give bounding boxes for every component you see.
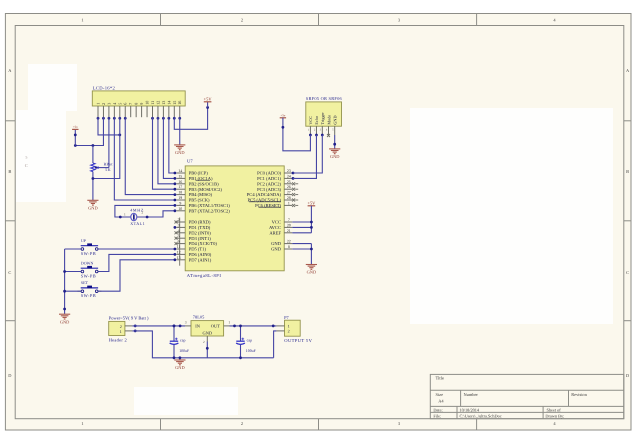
wire UP to PD5 xyxy=(98,248,174,250)
svg-text:27: 27 xyxy=(287,191,291,195)
wire SRF05 Trigger to PC0 xyxy=(293,135,322,173)
svg-text:PD7 (AIN1): PD7 (AIN1) xyxy=(189,257,212,262)
wire pot bottom to ground xyxy=(92,172,94,201)
wire LCD pin6 to PB4 xyxy=(125,117,175,194)
svg-text:Title: Title xyxy=(436,376,445,381)
svg-text:UP: UP xyxy=(81,238,87,243)
junction dot PD1 xyxy=(174,226,177,229)
svg-text:20: 20 xyxy=(287,223,291,227)
wire LCD pin14 to PB0 xyxy=(169,117,175,173)
capacitor C2 100uF xyxy=(240,326,242,341)
svg-text:9: 9 xyxy=(139,103,144,105)
svg-text:17: 17 xyxy=(178,185,182,189)
svg-text:VCC: VCC xyxy=(308,116,313,125)
svg-text:cap: cap xyxy=(180,339,185,343)
svg-text:AVCC: AVCC xyxy=(269,225,281,230)
junction dot pin5 gnd link xyxy=(118,134,121,137)
svg-text:Header 2: Header 2 xyxy=(109,338,127,343)
svg-text:OUT: OUT xyxy=(211,324,220,329)
wire SRF05 VCC to +5v xyxy=(283,118,311,151)
svg-text:RPot: RPot xyxy=(104,161,114,166)
mcu U7 ATmega8L-8PI body xyxy=(185,166,284,271)
regulator 78L05 body xyxy=(191,321,224,336)
svg-text:C:\Users\..\ultra.SchDoc: C:\Users\..\ultra.SchDoc xyxy=(460,413,502,418)
connector P7 pin stubs xyxy=(276,325,284,327)
svg-text:PD1 (TXD): PD1 (TXD) xyxy=(189,225,211,230)
svg-text:Sheet of: Sheet of xyxy=(547,407,562,412)
regulator 78L05 input pin xyxy=(185,325,191,327)
wire crystal pin1 to PB6 xyxy=(115,205,175,217)
svg-text:3: 3 xyxy=(106,103,111,105)
svg-text:5: 5 xyxy=(178,234,180,238)
svg-text:12: 12 xyxy=(155,101,160,105)
svg-text:OUTPUT 5V: OUTPUT 5V xyxy=(284,338,312,343)
svg-text:100uF: 100uF xyxy=(179,349,190,353)
wire DOWN to PD6 xyxy=(98,254,174,271)
svg-text:22: 22 xyxy=(287,240,291,244)
wire +5V to VCC AVCC AREF xyxy=(310,206,312,233)
svg-text:16: 16 xyxy=(177,101,182,105)
svg-text:XTAL1: XTAL1 xyxy=(130,221,145,226)
wire 78L05 gnd to bottom rail xyxy=(206,342,208,358)
module SRF05 pin stubs xyxy=(309,126,311,135)
svg-text:8: 8 xyxy=(288,245,290,249)
wire LCD pin16 to ground xyxy=(179,117,181,144)
ground symbol below U7 xyxy=(306,264,317,266)
svg-text:File:: File: xyxy=(433,413,441,418)
svg-text:C: C xyxy=(25,163,28,168)
svg-text:PB5 (SCK): PB5 (SCK) xyxy=(189,198,210,203)
svg-text:10: 10 xyxy=(145,101,150,105)
wire LCD pin13 to PB1 xyxy=(163,117,175,178)
svg-text:IN: IN xyxy=(195,324,200,329)
connector Header 2 body xyxy=(109,321,125,335)
wire LCD pin2 to +5v rail xyxy=(75,117,103,145)
regulator 78L05 gnd pin xyxy=(206,336,208,342)
svg-text:14: 14 xyxy=(178,169,182,173)
svg-text:SW-PB: SW-PB xyxy=(81,251,96,256)
svg-text:D: D xyxy=(8,373,11,378)
svg-text:PB0 (ICP): PB0 (ICP) xyxy=(189,171,209,176)
frame zone ticks xyxy=(160,14,162,26)
ground symbol below SRF05 xyxy=(329,148,340,150)
svg-text:26: 26 xyxy=(287,185,291,189)
svg-text:1: 1 xyxy=(124,212,126,216)
junction dot pot bottom gnd rail xyxy=(92,177,95,180)
svg-text:AREF: AREF xyxy=(269,230,281,235)
svg-text:4: 4 xyxy=(178,229,180,233)
junction dots SRF05 pins xyxy=(309,134,312,137)
wire DOWN left to gnd rail xyxy=(65,271,81,273)
svg-text:PD6 (AIN0): PD6 (AIN0) xyxy=(189,252,212,257)
svg-text:+5v: +5v xyxy=(280,113,285,117)
svg-text:GND: GND xyxy=(330,154,340,159)
svg-text:Power=5V( 9 V Batt ): Power=5V( 9 V Batt ) xyxy=(109,315,149,320)
svg-text:B: B xyxy=(8,169,11,174)
svg-text:PD2 (INT0): PD2 (INT0) xyxy=(189,230,212,235)
svg-text:Number: Number xyxy=(464,392,479,397)
svg-text:PB3 (MOSI/OC2): PB3 (MOSI/OC2) xyxy=(189,187,223,192)
svg-text:GND: GND xyxy=(307,270,317,275)
svg-text:SRF05 OR SRF06: SRF05 OR SRF06 xyxy=(306,96,343,101)
svg-text:GND: GND xyxy=(175,150,185,155)
svg-text:15: 15 xyxy=(172,101,177,105)
svg-text:2: 2 xyxy=(178,218,180,222)
svg-text:PB6 (XTAL1/TOSC1): PB6 (XTAL1/TOSC1) xyxy=(189,203,231,208)
svg-text:1: 1 xyxy=(228,320,230,324)
svg-text:2: 2 xyxy=(288,329,290,334)
svg-text:1: 1 xyxy=(96,103,101,105)
svg-text:13: 13 xyxy=(161,101,166,105)
svg-text:2: 2 xyxy=(101,103,106,105)
mcu U7 left pin stubs PD xyxy=(177,221,186,223)
svg-text:11: 11 xyxy=(177,245,181,249)
potentiometer wiper arrow xyxy=(96,167,109,169)
ground symbol below LCD pin16 xyxy=(174,144,185,146)
svg-text:6: 6 xyxy=(123,103,128,105)
wire bottom rail to P7 pin2 xyxy=(274,331,277,358)
svg-text:Echo: Echo xyxy=(314,116,319,125)
ground symbol below pot xyxy=(87,199,98,201)
connector Header 2 pin stubs xyxy=(125,325,132,327)
ground symbol below buttons xyxy=(59,313,70,315)
svg-text:16: 16 xyxy=(178,180,182,184)
svg-text:SW-PB: SW-PB xyxy=(81,273,96,278)
svg-text:3: 3 xyxy=(185,320,187,324)
svg-text:5: 5 xyxy=(117,103,122,105)
svg-text:PC0 (ADC0): PC0 (ADC0) xyxy=(257,171,281,176)
power +5v supply for SRF05 xyxy=(280,117,286,119)
mcu U7 left pin stubs PB xyxy=(177,172,186,174)
svg-text:7: 7 xyxy=(288,218,290,222)
power +5V port near LCD xyxy=(207,102,209,108)
wire UP left to gnd rail xyxy=(65,248,81,250)
svg-text:23: 23 xyxy=(287,169,291,173)
wire LCD pin1 to pin5 (gnd link) xyxy=(98,117,120,135)
svg-text:13: 13 xyxy=(177,256,181,260)
wire SRF05 Echo to PC1 xyxy=(293,135,316,178)
wire LCD pin15 to +5V xyxy=(174,108,207,130)
svg-text:D: D xyxy=(626,373,629,378)
svg-text:ATmega8L-8PI: ATmega8L-8PI xyxy=(187,273,222,278)
junction dots on connected left pins xyxy=(174,172,177,175)
svg-text:1: 1 xyxy=(288,201,290,205)
svg-text:PD5 (T1): PD5 (T1) xyxy=(189,247,207,252)
title block xyxy=(430,374,624,418)
svg-text:15: 15 xyxy=(178,174,182,178)
svg-text:+5V: +5V xyxy=(307,200,316,205)
wire LCD pin11 to PB3 xyxy=(153,117,175,189)
svg-text:PC4 (ADC4/SDA): PC4 (ADC4/SDA) xyxy=(247,192,282,197)
ground symbol power rail xyxy=(179,358,181,360)
junction dot at +5v stem xyxy=(74,144,77,147)
connector LCD-16*2 body xyxy=(92,91,185,106)
wire SRF05 GND pin xyxy=(334,135,336,149)
connector P7 body xyxy=(285,320,301,336)
svg-text:2: 2 xyxy=(142,211,144,215)
svg-text:PB2 (SS/OC1B): PB2 (SS/OC1B) xyxy=(189,181,219,186)
svg-text:7: 7 xyxy=(128,103,133,105)
svg-text:24: 24 xyxy=(287,174,291,178)
svg-text:1: 1 xyxy=(81,421,83,426)
svg-text:SET: SET xyxy=(81,280,89,285)
svg-text:DOWN: DOWN xyxy=(81,260,94,265)
wire pot top to +5v rail xyxy=(92,146,94,164)
mcu U7 right pin stubs xyxy=(284,172,292,174)
svg-text:C: C xyxy=(626,270,629,275)
svg-text:+5v: +5v xyxy=(73,125,78,129)
svg-text:10/18/2014: 10/18/2014 xyxy=(460,407,480,412)
svg-text:VCC: VCC xyxy=(272,220,281,225)
wire LCD pin12 to PB2 xyxy=(158,117,175,184)
svg-text:PD4 (XCK/T0): PD4 (XCK/T0) xyxy=(189,241,218,246)
wire crystal pin2 to PB7 xyxy=(137,211,175,217)
svg-text:12: 12 xyxy=(177,250,181,254)
regulator 78L05 output pin xyxy=(224,325,230,327)
svg-text:B: B xyxy=(626,169,629,174)
svg-text:PB7 (XTAL2/TOSC2): PB7 (XTAL2/TOSC2) xyxy=(189,208,231,213)
svg-text:5K: 5K xyxy=(105,167,111,172)
svg-text:LCD-16*2: LCD-16*2 xyxy=(93,85,116,90)
svg-text:18: 18 xyxy=(178,191,182,195)
svg-text:GND: GND xyxy=(203,331,213,336)
wire LCD pin3 to pot wiper xyxy=(108,117,110,167)
connector LCD-16*2 pin stubs xyxy=(97,106,99,117)
power +5v supply for LCD contrast rail xyxy=(74,130,76,146)
junction dot under +5V port xyxy=(206,106,209,109)
svg-text:10: 10 xyxy=(178,207,182,211)
svg-text:P7: P7 xyxy=(284,315,289,320)
svg-text:5: 5 xyxy=(26,156,28,160)
svg-text:GND: GND xyxy=(271,241,282,246)
svg-text:3: 3 xyxy=(178,223,180,227)
stray vertical line at PD pin column xyxy=(179,218,181,266)
svg-text:GND: GND xyxy=(88,206,98,211)
svg-text:cap: cap xyxy=(247,339,252,343)
svg-text:GND: GND xyxy=(271,247,282,252)
svg-text:PC3 (ADC3): PC3 (ADC3) xyxy=(257,187,281,192)
junction dots PD5 PD6 PD7 xyxy=(174,248,177,251)
svg-text:8: 8 xyxy=(134,103,139,105)
junction dots PC0 PC1 xyxy=(292,172,295,175)
potentiometer RPot 5K zigzag xyxy=(91,163,95,172)
svg-text:PC2 (ADC2): PC2 (ADC2) xyxy=(257,181,281,186)
wire LCD pin4 to PB5 xyxy=(114,117,175,200)
junction dots on input rail xyxy=(173,325,176,328)
svg-text:78L05: 78L05 xyxy=(193,315,205,320)
wire SET to PD7 xyxy=(98,260,174,291)
wire LCD pin5 down to gnd rail xyxy=(93,117,120,178)
svg-text:Trigger: Trigger xyxy=(320,112,325,125)
module SRF05 body xyxy=(306,102,342,126)
svg-text:Drawn By:: Drawn By: xyxy=(545,413,564,418)
svg-text:19: 19 xyxy=(178,196,182,200)
svg-text:2: 2 xyxy=(241,17,243,22)
svg-text:Size: Size xyxy=(436,392,444,397)
no-connect mark SRF05 Mode xyxy=(327,134,330,137)
svg-text:Date:: Date: xyxy=(433,407,442,412)
svg-text:PB4 (MISO): PB4 (MISO) xyxy=(189,192,213,197)
svg-text:A4: A4 xyxy=(438,399,444,404)
capacitor C1 100uF xyxy=(173,326,175,341)
wire header pin1 to bottom rail xyxy=(132,331,273,358)
svg-text:GND: GND xyxy=(60,319,70,324)
svg-text:6: 6 xyxy=(178,240,180,244)
svg-text:PD0 (RXD): PD0 (RXD) xyxy=(189,220,211,225)
svg-text:SW-PB: SW-PB xyxy=(81,293,96,298)
svg-text:1: 1 xyxy=(120,329,122,334)
svg-text:GND: GND xyxy=(333,116,338,125)
svg-text:11: 11 xyxy=(150,101,155,105)
svg-text:25: 25 xyxy=(287,180,291,184)
svg-text:1: 1 xyxy=(81,17,83,22)
svg-text:100uF: 100uF xyxy=(246,349,257,353)
svg-text:+5V: +5V xyxy=(204,96,213,101)
svg-text:21: 21 xyxy=(287,229,291,233)
svg-text:Mode: Mode xyxy=(326,115,331,125)
power +5V port for U7 xyxy=(308,205,316,207)
svg-text:2: 2 xyxy=(241,421,243,426)
wire button gnd rail xyxy=(64,249,66,314)
svg-text:U7: U7 xyxy=(187,159,193,164)
junction dot on +5v rail at pot xyxy=(92,144,95,147)
svg-text:Revision: Revision xyxy=(571,392,587,397)
svg-text:9: 9 xyxy=(179,201,181,205)
svg-text:PC1 (ADC1): PC1 (ADC1) xyxy=(257,176,281,181)
wire SET left to gnd rail xyxy=(65,290,81,292)
wire regulator output rail to P7 xyxy=(230,325,277,327)
no-connect marks right pins xyxy=(292,182,295,185)
svg-text:C: C xyxy=(8,270,11,275)
svg-text:28: 28 xyxy=(287,196,291,200)
wire header pin2 to regulator input rail xyxy=(132,325,185,327)
svg-text:PD3 (INT1): PD3 (INT1) xyxy=(189,236,212,241)
svg-text:GND: GND xyxy=(175,365,185,370)
junction dots on LCD pins xyxy=(97,117,100,120)
no-connect marks left pins xyxy=(175,221,178,224)
wire U7 GND pins to ground xyxy=(292,243,311,245)
